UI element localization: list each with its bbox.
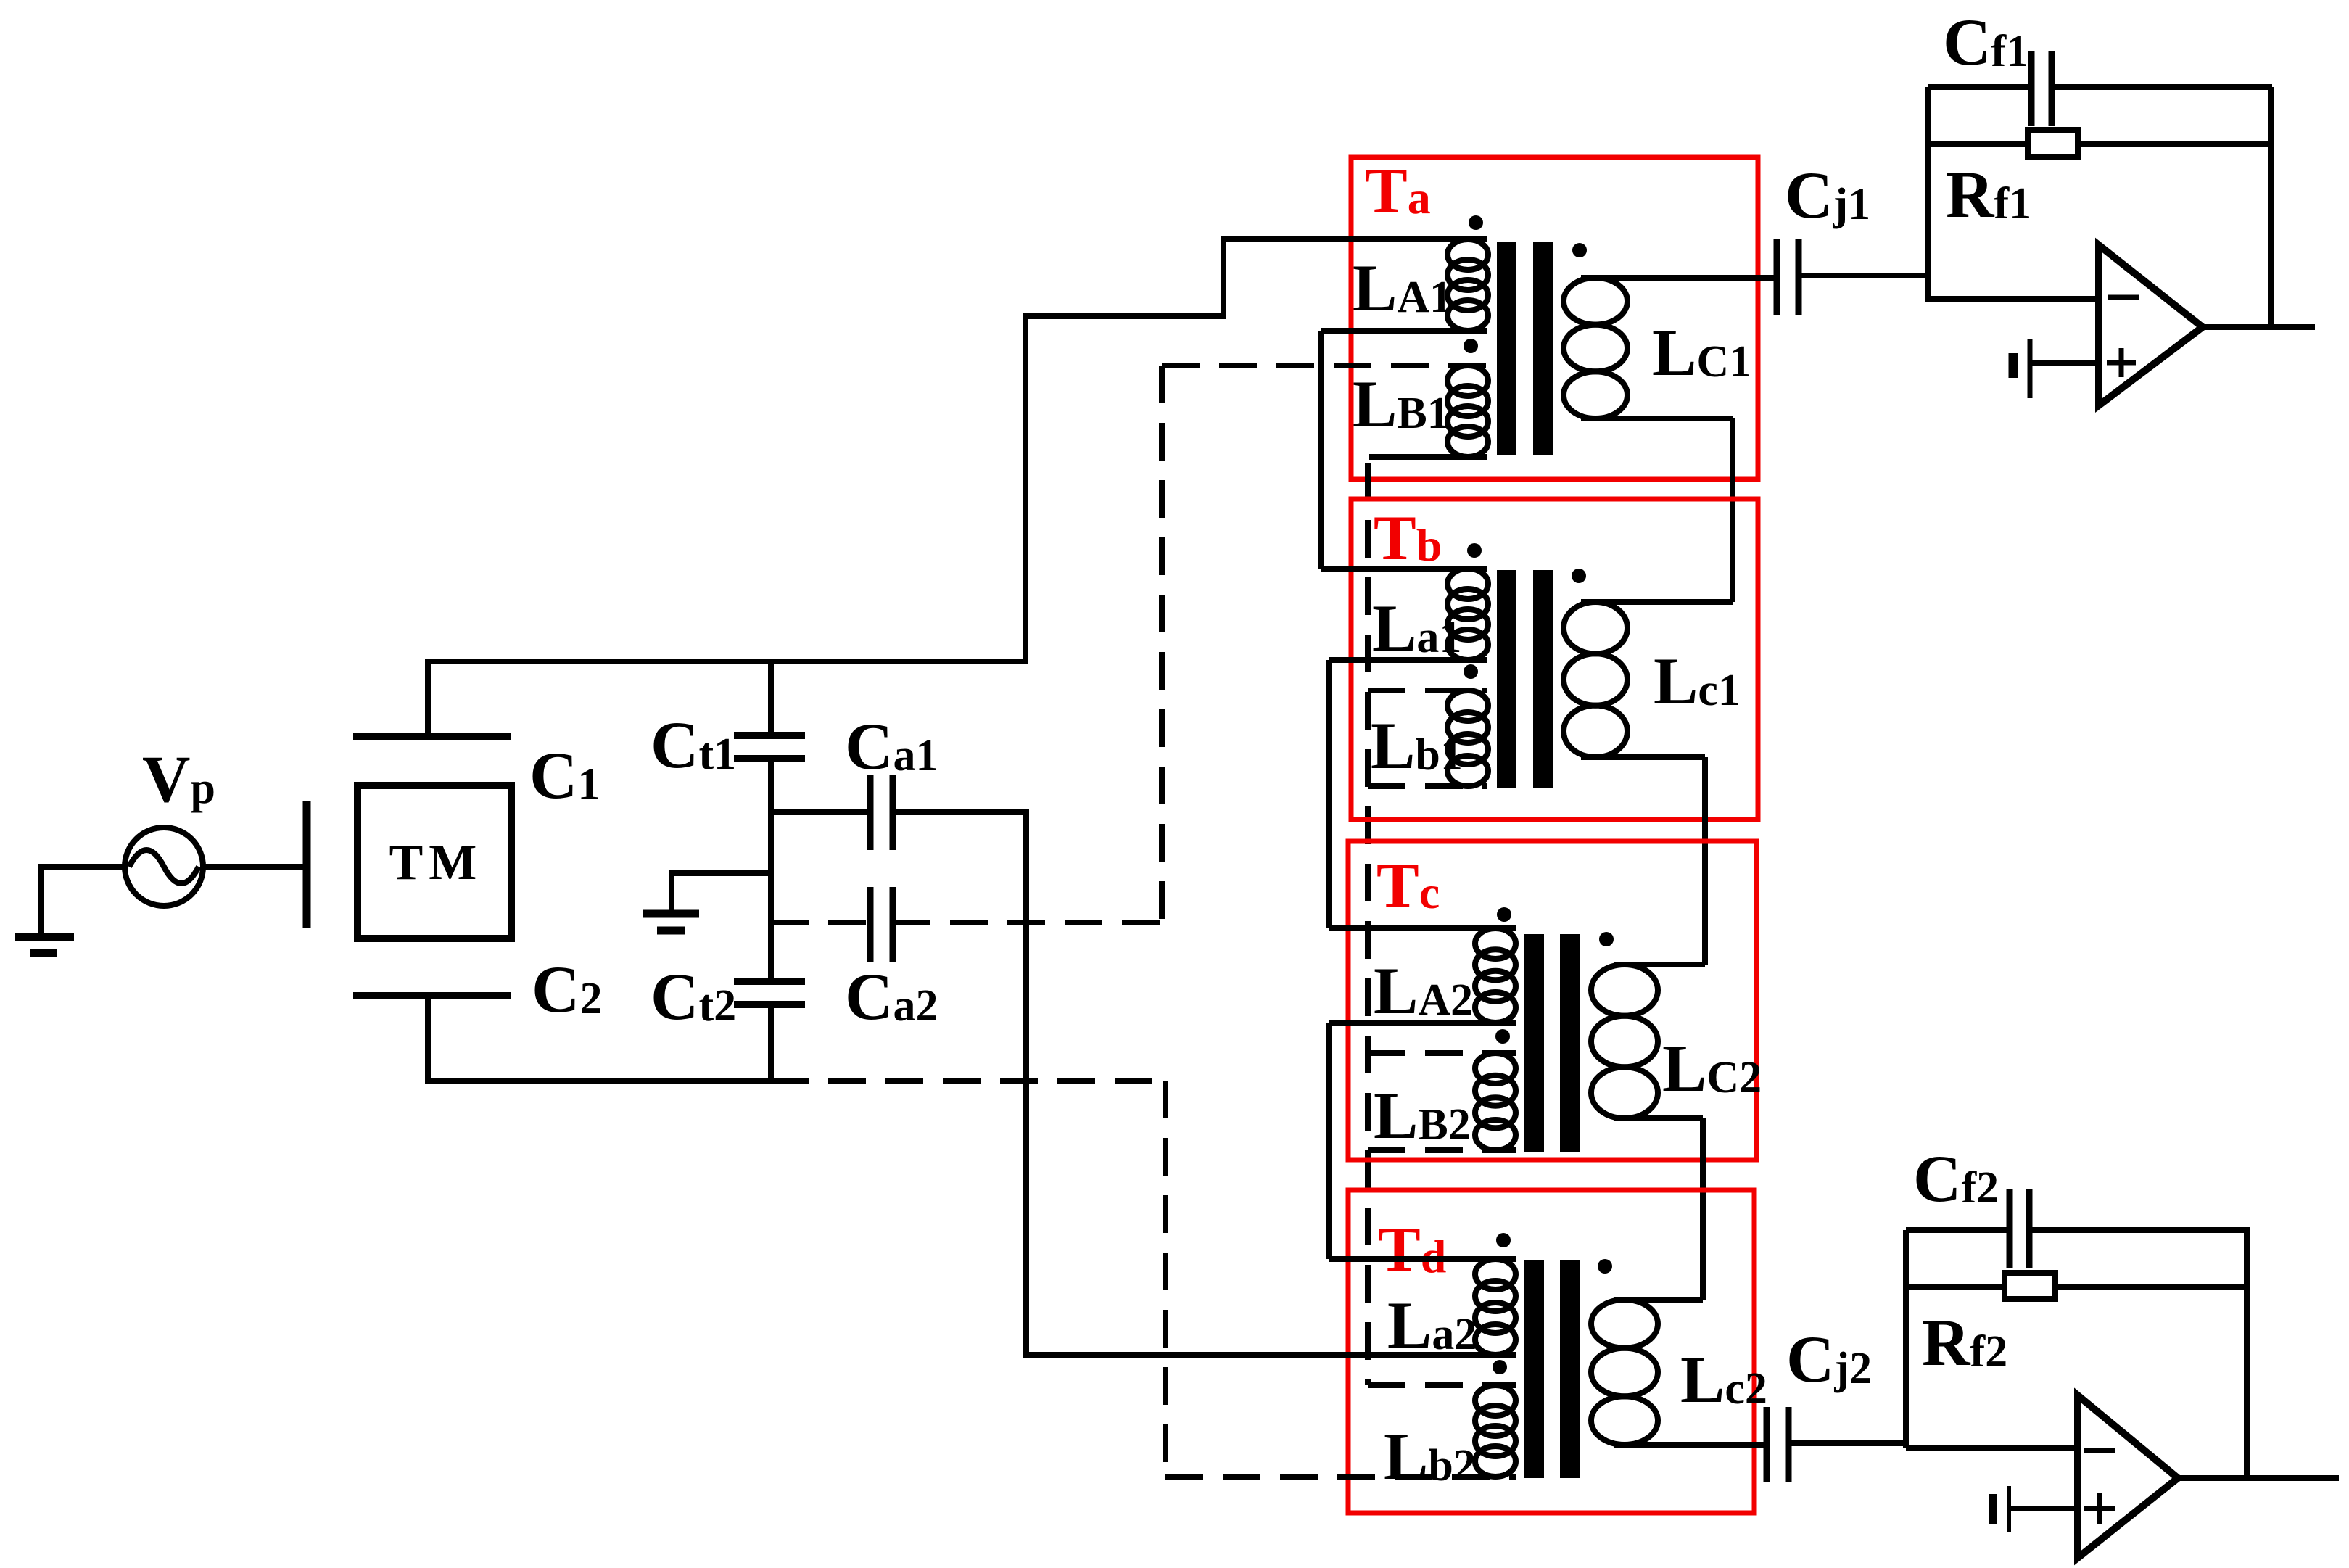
voltage source Vp [125, 828, 203, 906]
wire op2 output [2175, 1475, 2339, 1481]
wire Lb2 top (dashed) [1368, 1382, 1516, 1388]
wire La2 bottom [1023, 1352, 1516, 1358]
wire La2 top [1329, 1256, 1516, 1262]
bias cell op2 [1993, 1486, 2009, 1532]
wire feedback1 left riser [1925, 87, 1931, 302]
label Tb [1374, 503, 1442, 574]
wire La1 bottom [1329, 657, 1487, 663]
dot La2 [1496, 1233, 1511, 1247]
wire LC1 top [1581, 275, 1777, 281]
label Lc2 [1680, 1342, 1767, 1416]
dot La1 [1467, 543, 1482, 558]
capacitor Ct2 [734, 981, 805, 1004]
wire LA1 bottom [1321, 328, 1487, 334]
wire LB1-Lb1 dashed link x1886 [1365, 463, 1371, 1385]
electrode plate (TM drive) [303, 801, 311, 928]
wire Lb1 bottom (dashed) [1368, 783, 1487, 789]
wire La1 top [1321, 566, 1487, 572]
inductor La1 [1448, 569, 1488, 660]
wire Vp right [203, 864, 304, 870]
wire LA2-La2 link x1832 [1326, 1023, 1332, 1259]
wire LC2 bottom [1614, 1115, 1703, 1121]
transformer Tc red box [1348, 841, 1756, 1160]
wire Cj1 right [1799, 273, 1931, 278]
core Tc [1524, 934, 1580, 1152]
label Rf2 [1922, 1305, 2007, 1379]
bias cell op1 [2013, 339, 2030, 398]
wire riser dashed x1602 up [1159, 366, 1165, 923]
dot LA2 [1497, 907, 1511, 922]
inductor La2 [1475, 1259, 1516, 1355]
inductor LB1 [1448, 366, 1488, 457]
label Ct1 [651, 708, 736, 782]
dot Lb1 [1464, 664, 1478, 679]
wire LC2 top [1614, 962, 1705, 967]
ground (Vp) [15, 937, 74, 953]
label Lb2 [1384, 1419, 1476, 1493]
wire riser x1414 [1023, 316, 1028, 664]
core Tb [1497, 570, 1553, 788]
inductor LA1 [1448, 239, 1488, 331]
wire feedback2 left riser [1903, 1230, 1909, 1448]
wire riser dashed x1607 down [1163, 1081, 1168, 1477]
resistor Rf1 [2028, 130, 2078, 157]
wire op2 inverting input [1906, 1445, 2078, 1451]
wire Lc2 top [1614, 1297, 1703, 1303]
wire Ca2 right (dashed) [893, 920, 1162, 925]
capacitor Ca1 [870, 775, 893, 850]
wire op2 non-inverting input [2009, 1506, 2078, 1511]
transformer Ta red box [1351, 157, 1758, 479]
wire top rail [425, 659, 1025, 664]
label Ca1 [845, 709, 938, 783]
wire Vp left [41, 864, 125, 870]
capacitor C2 bottom plate [353, 992, 511, 999]
wire Ct2 bottom [768, 1004, 774, 1082]
wire LA1-La1 link x1821 [1318, 331, 1324, 569]
dot LB1 [1464, 339, 1478, 353]
label Lc1 [1654, 644, 1741, 718]
wire C2 to bottom rail [425, 996, 431, 1079]
resistor Rf2 [2005, 1273, 2055, 1299]
label LA1 [1353, 251, 1452, 325]
wire LA2 bottom [1329, 1020, 1516, 1026]
capacitor Ca2 [870, 887, 893, 962]
core Ta [1497, 242, 1553, 455]
inductor LB2 [1475, 1053, 1516, 1150]
label TM [389, 835, 483, 891]
inductor Lc2 [1591, 1300, 1658, 1445]
wire Vp to ground [38, 864, 44, 937]
wire feedback2 right riser [2244, 1230, 2250, 1481]
wire Ct1-Ct2 column [768, 759, 774, 981]
wire Lc1-LC2 link x2351 [1702, 757, 1708, 965]
inductor Lb1 [1448, 690, 1488, 786]
capacitor Cf2 [2010, 1189, 2029, 1268]
wire Lc2 bottom [1614, 1442, 1767, 1448]
wire LB2 bottom (dashed) [1368, 1147, 1516, 1153]
wire LC2-Lc2 link x2348 [1700, 1118, 1706, 1300]
label LA2 [1374, 954, 1473, 1028]
label Rf1 [1946, 157, 2031, 231]
wire op1 inverting input [1928, 296, 2099, 302]
label Lb1 [1371, 709, 1463, 783]
ground (bridge) [643, 914, 699, 931]
wire Rf2 row [1906, 1284, 2250, 1290]
wire C1 to top rail [425, 661, 431, 736]
capacitor Ct1 [734, 735, 805, 759]
wire Cf2 row [1906, 1227, 2250, 1233]
inductor Lb2 [1475, 1385, 1516, 1477]
wire bottom rail [425, 1078, 771, 1084]
label Td [1378, 1215, 1446, 1285]
label La1 [1372, 591, 1461, 665]
inductor LC1 [1564, 278, 1627, 418]
label Cf1 [1943, 5, 2028, 79]
wire Rf1 row [1928, 141, 2272, 147]
label LC1 [1652, 315, 1751, 389]
inductor Lc1 [1564, 602, 1627, 757]
label C2 [532, 952, 602, 1026]
wire LA2 top [1329, 925, 1516, 931]
wire bottom dashed row [771, 1078, 1165, 1084]
op-amp U1 [2099, 245, 2203, 405]
wire La1-LA2 link x1833 [1326, 660, 1332, 928]
wire LC1-Lc1 link x2389 [1730, 418, 1735, 602]
wire LA1 top [1221, 236, 1487, 242]
test mass TM box [358, 785, 511, 938]
dot LA1 [1469, 215, 1483, 230]
svg-text:TM: TM [389, 835, 483, 891]
wire LB1 bottom [1369, 454, 1487, 460]
transformer Td red box [1348, 1190, 1754, 1513]
wire Lb2 bottom (dashed) [1165, 1474, 1516, 1480]
dot Lb2 [1493, 1360, 1507, 1374]
dot Lc1 [1572, 569, 1586, 583]
wire Ct1 top [768, 659, 774, 735]
capacitor C1 top plate [353, 733, 511, 740]
wire Cf1 row [1928, 84, 2272, 90]
label C1 [529, 738, 600, 812]
dot LC1 [1572, 243, 1587, 257]
wire op1 non-inverting input [2031, 360, 2099, 366]
wire jog y436 [1023, 313, 1223, 319]
label LB1 [1353, 367, 1450, 441]
label Cj1 [1785, 158, 1870, 232]
label Tc [1376, 851, 1440, 921]
dot LB2 [1495, 1029, 1510, 1044]
wire LC1 bottom [1581, 416, 1733, 421]
wire ground stub [669, 873, 771, 912]
capacitor Cj1 [1777, 239, 1799, 315]
label Ca2 [845, 960, 938, 1033]
inductor LA2 [1475, 928, 1516, 1023]
label Cf2 [1913, 1142, 1999, 1216]
wire Lc1 top [1581, 599, 1733, 605]
wire Lb1 top (dashed) [1368, 688, 1487, 693]
wire LB2 top (dashed) [1368, 1050, 1516, 1056]
capacitor Cf1 [2031, 51, 2052, 126]
wire LB1 top (dashed) [1162, 363, 1487, 368]
wire Ca1 left [771, 809, 870, 815]
wire op1 output [2200, 324, 2315, 330]
label Ct2 [651, 960, 736, 1033]
wire riser Ca1 chain x1415 [1023, 812, 1029, 1356]
op-amp U2 [2078, 1395, 2178, 1558]
capacitor Cj2 [1767, 1407, 1788, 1482]
wire Ca1 right [893, 809, 1029, 815]
transformer Tb red box [1351, 499, 1758, 820]
core Td [1524, 1260, 1580, 1478]
inductor LC2 [1591, 965, 1658, 1118]
wire Cj2 right [1788, 1440, 1909, 1446]
label Ta [1365, 156, 1431, 226]
wire riser x1687 [1221, 239, 1226, 319]
wire feedback1 right riser [2268, 87, 2274, 330]
dot LC2 [1599, 932, 1614, 946]
label LB2 [1374, 1078, 1471, 1152]
label La2 [1387, 1288, 1477, 1362]
dot Lc2 [1598, 1259, 1612, 1274]
label Vp [142, 742, 215, 816]
wire Lc1 bottom [1581, 754, 1705, 760]
wire Ca2 left (dashed) [771, 920, 870, 925]
label Cj2 [1786, 1322, 1872, 1396]
label LC2 [1662, 1031, 1762, 1105]
